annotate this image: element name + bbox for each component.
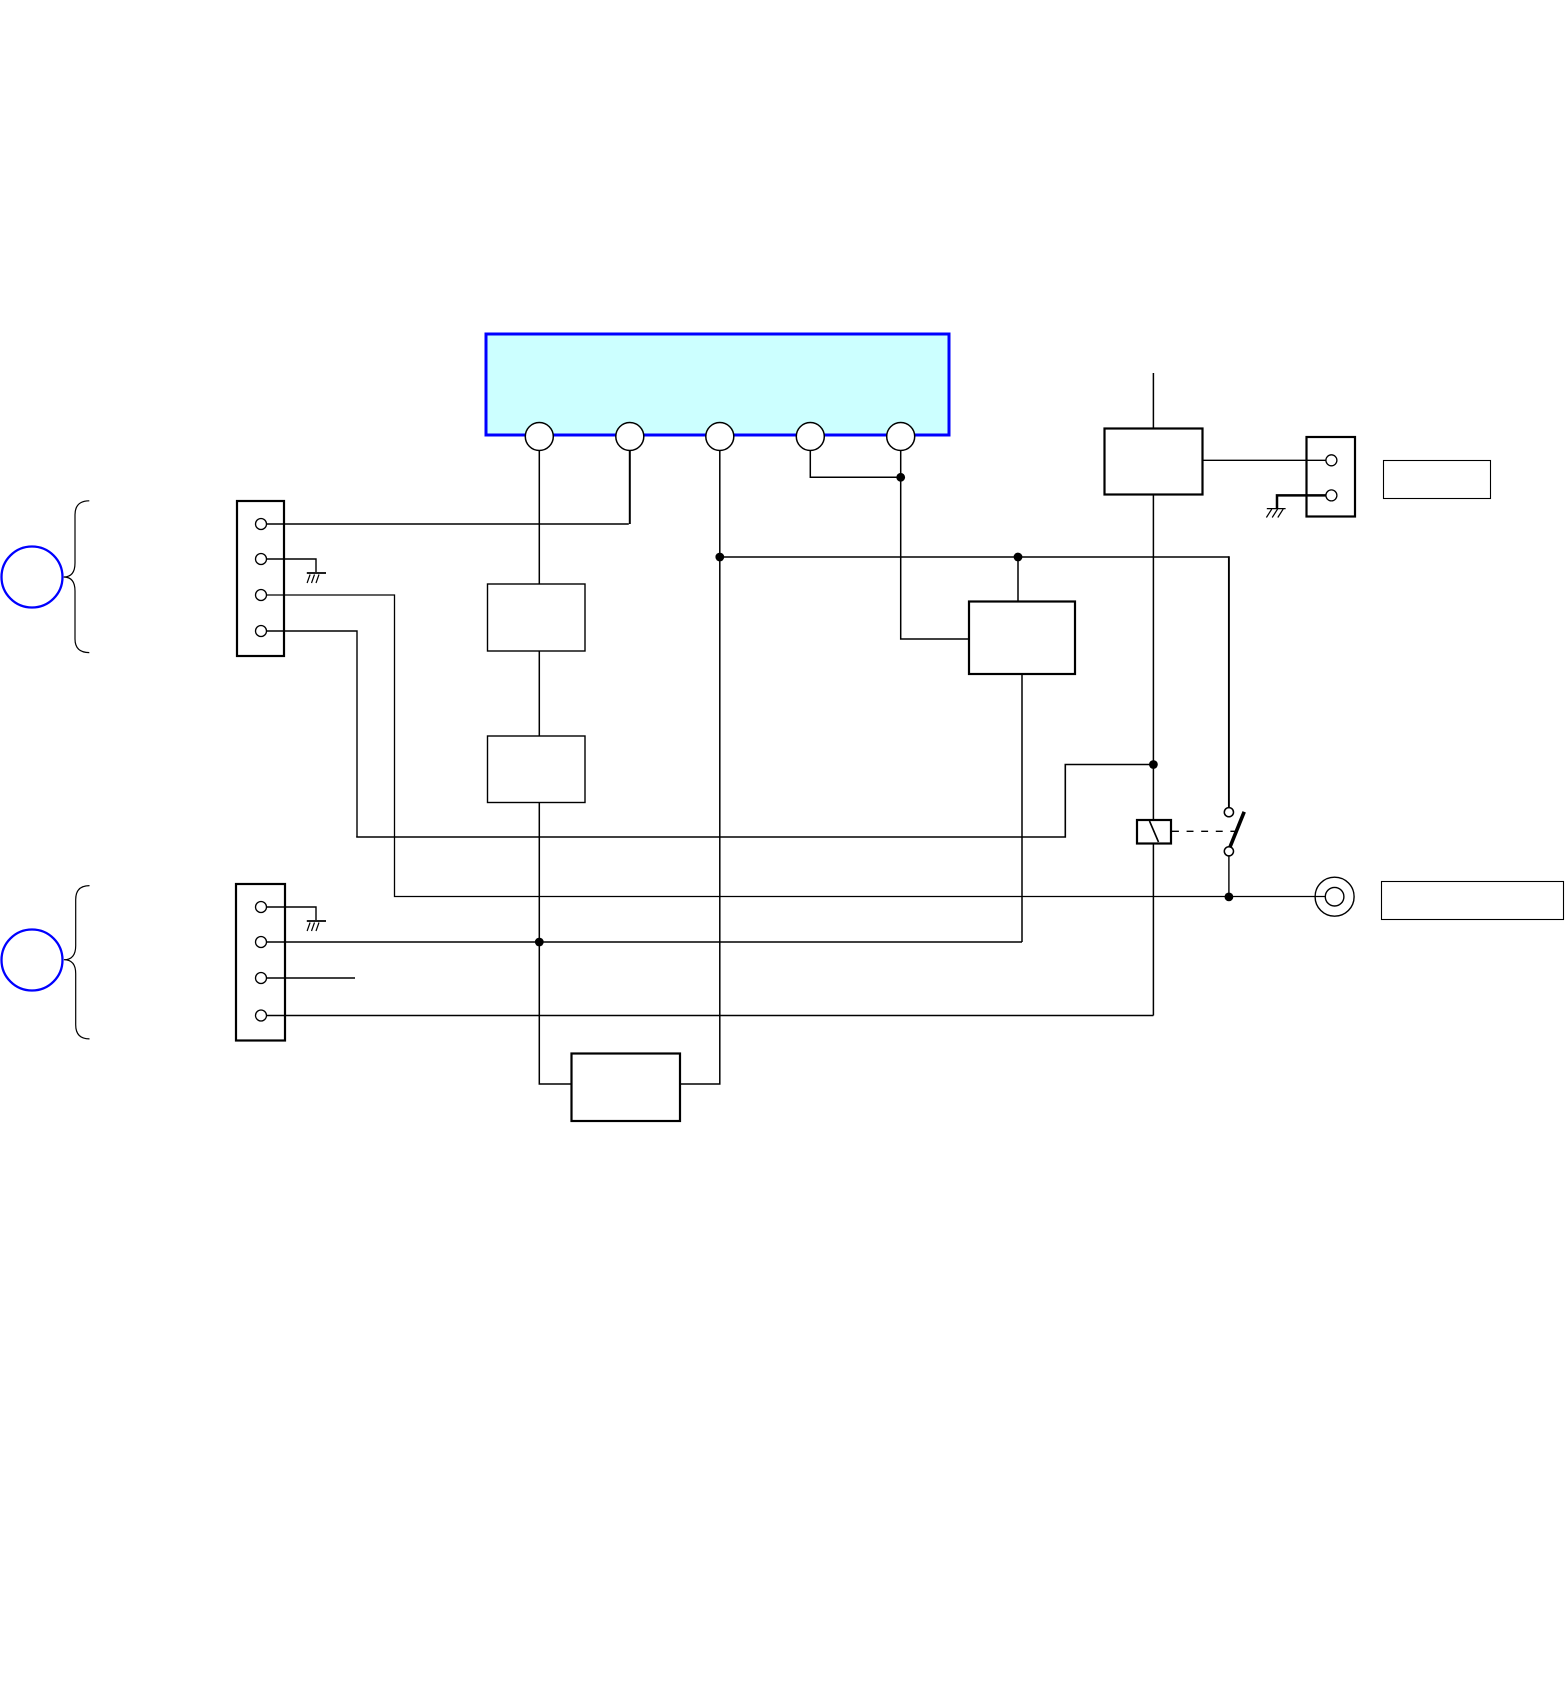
ground G1 (connector J1 pin2) [267,559,327,583]
wire: connector J1 pin4 long run to relay node [267,631,358,837]
wire: terminal T2 vertical drop [629,448,631,524]
box B3 [969,602,1075,675]
wire: box B2 down and right into box B5 [539,803,571,1085]
pin J2-4 [256,1010,267,1021]
wire: box B4 bottom through relay K1 to connector J2 pin4 line [1152,495,1154,1016]
junction node B (T3 bus) [715,553,724,562]
pin J1-4 [256,626,267,637]
brace for connector J2 [64,886,90,1039]
wire: connector J2 pin3 open stub [267,977,356,979]
pin J3-1 [1326,455,1337,466]
speaker symbol SP1 (blue circle) [2,547,63,608]
pin J2-3 [256,973,267,984]
connector J2 (4-pin) [236,884,285,1041]
terminal T1 [525,423,553,451]
junction node F (switch / horn wire) [1225,893,1234,902]
connector J3 (2-pin) [1307,437,1356,517]
brace for connector J1 [64,501,90,653]
wire: connector J2 pin2 to box B3 [267,941,1023,943]
wire: long feed run along y=837 up to relay node [356,765,1152,838]
wire: switch S1 bottom contact to horn wire [1228,856,1230,897]
wire: terminal T1 down to box B1 [538,448,540,584]
horn H1 inner [1325,887,1344,906]
pin J2-2 [256,937,267,948]
pin J1-1 [256,519,267,530]
relay K1 diagonal [1150,821,1159,842]
main unit block U1 (cyan) [486,334,949,435]
junction node C (bus to B3) [1014,553,1023,562]
wire: terminal T4 down-right to T5 line [810,448,900,477]
junction node D (relay feed) [1149,760,1158,769]
terminal T4 [796,423,824,451]
wire: connector J2 pin4 to relay line [267,1015,1154,1017]
pin J2-1 [256,902,267,913]
speaker symbol SP2 (blue circle) [2,930,63,991]
box B4 [1105,429,1203,495]
switch S1 bottom contact [1224,847,1233,856]
wire: node bus from T3 junction toward switch S1 [720,556,1229,558]
horn H1 outer [1315,877,1354,916]
box B2 [488,736,586,803]
pin J3-2 [1326,490,1337,501]
relay K1 actuating dashed link [1172,830,1241,832]
wire: terminal T3 vertical down and left into box B5 [680,448,720,1084]
box B1 [488,584,586,651]
wire: connector J1 pin3 long run to horn H1 [267,595,1326,897]
label box L2 [1382,882,1564,920]
pin J1-2 [256,554,267,565]
junction node A (T4/T5) [896,473,905,482]
wire: box B4 to connector J3 pin1 [1203,459,1327,461]
wire: connector J1 pin1 to terminal T2 [267,523,629,525]
switch S1 top contact [1224,808,1233,817]
terminal T5 [887,423,915,451]
wire: terminal T5 down and right into box B3 left [901,448,969,639]
relay coil K1 [1137,820,1171,844]
box B5 [572,1054,681,1122]
ground G3 (connector J3 pin2, thick lead) [1266,495,1326,517]
wire: switch S1 feed vertical [1228,556,1230,808]
pin J1-3 [256,590,267,601]
terminal T3 [706,423,734,451]
switch S1 blade [1230,812,1244,848]
junction node E (J2 pin2 / B2 line) [535,938,544,947]
ground G2 (connector J2 pin1) [267,907,327,931]
label box L1 [1384,461,1491,499]
wire: drop from bus into box B3 top [1017,557,1019,602]
connector J1 (4-pin) [237,501,284,656]
wire: box B3 bottom down to connector J2 pin2 line [1021,674,1023,942]
wire: box B1 to box B2 [538,651,540,736]
terminal T2 [616,423,644,451]
wire: supply stub above box B4 [1152,373,1154,428]
